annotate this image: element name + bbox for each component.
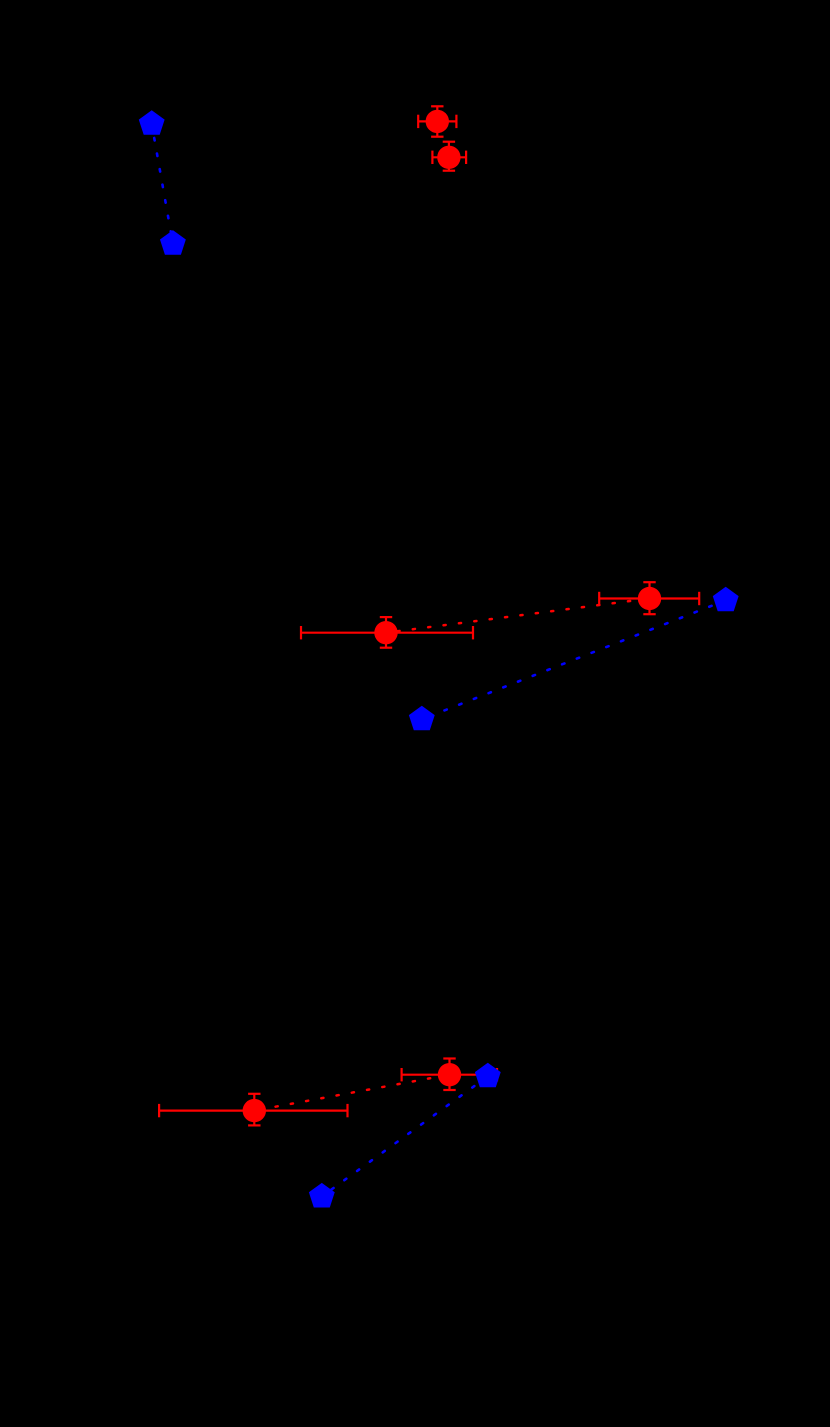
red dotted connector D2	[386, 599, 650, 633]
blue dashed connector L1	[152, 124, 173, 244]
red point R1b marker	[437, 146, 460, 169]
red point R1a error bars	[418, 106, 456, 136]
blue pentagon P1b	[160, 230, 186, 255]
blue pentagon P2a	[409, 706, 435, 731]
red point R2b error bars	[599, 582, 699, 614]
red dotted connector D1	[437, 121, 449, 157]
red point R2b marker	[638, 587, 661, 610]
red dotted connector D3	[254, 1075, 449, 1111]
blue dashed connector L3	[322, 1076, 488, 1196]
blue pentagon P3a	[309, 1183, 335, 1208]
red point R3a marker	[243, 1099, 266, 1122]
red point R2a error bars	[301, 617, 473, 648]
red point R3a error bars	[159, 1094, 347, 1126]
blue dashed connector L2	[422, 600, 726, 719]
red point R1b error bars	[432, 142, 466, 171]
red point R1a marker	[426, 110, 449, 133]
blue pentagon P3b	[475, 1063, 501, 1088]
blue pentagon P2b	[713, 587, 739, 612]
blue pentagon P1a	[139, 110, 165, 135]
red point R3b error bars	[402, 1059, 497, 1091]
red point R3b marker	[438, 1063, 461, 1086]
red point R2a marker	[374, 621, 397, 644]
